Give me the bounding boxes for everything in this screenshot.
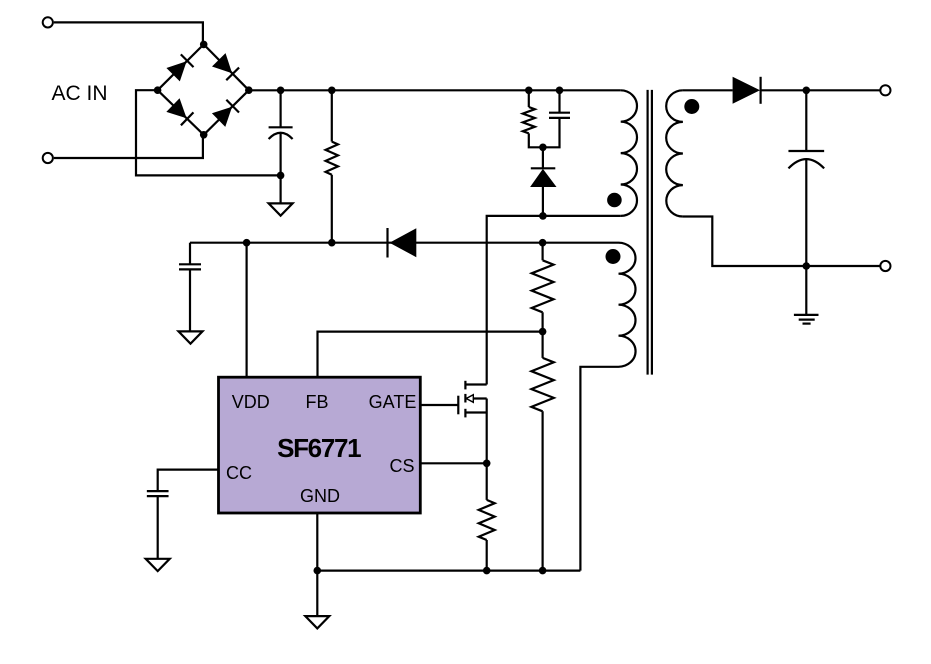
- mosfet Q1 drain wire: [465, 383, 486, 385]
- sense resistor R5 lead top: [486, 463, 488, 500]
- svg-text:GATE: GATE: [369, 392, 417, 412]
- junction rail/R1: [328, 87, 336, 95]
- junction output/C4: [803, 87, 811, 95]
- mosfet source down wire: [486, 399, 488, 464]
- junction C1/ground rail: [277, 172, 285, 180]
- GND pin wire: [316, 512, 318, 616]
- aux return wire: [580, 367, 618, 571]
- junction rail/C3: [556, 87, 564, 95]
- transformer aux winding: [619, 243, 636, 367]
- bridge node left junction: [154, 86, 162, 94]
- CS wire: [420, 462, 487, 464]
- AC input terminal J1 (top): [43, 17, 53, 27]
- snubber C3 bottom wire: [543, 118, 560, 147]
- snubber diode D6 (points up): [530, 168, 556, 187]
- svg-text:SF6771: SF6771: [277, 433, 361, 463]
- junction R5/ground rail: [483, 567, 491, 575]
- bridge edge wire BL: [158, 90, 204, 135]
- svg-text:CS: CS: [389, 456, 414, 476]
- startup resistor R1: [326, 142, 338, 175]
- top AC line-1 wire: [54, 22, 203, 44]
- output cap branch wire: [805, 90, 807, 151]
- bridge diode D1 (left->top): [166, 54, 193, 81]
- junction rail/C1: [277, 87, 285, 95]
- output terminal J4 (minus): [880, 261, 890, 271]
- mosfet Q1 channel segments: [464, 381, 466, 390]
- output terminal J3 (plus): [880, 85, 890, 95]
- startup resistor R1 lead top: [331, 90, 333, 141]
- junction CS: [483, 460, 491, 468]
- snubber resistor R2: [523, 107, 535, 133]
- divider R4 lead top: [541, 332, 543, 358]
- secondary top wire: [683, 89, 733, 91]
- bulk cap branch wire bottom: [280, 133, 282, 204]
- snubber diode D6 wire top: [542, 147, 544, 168]
- primary ground symbol 4 (main): [305, 616, 329, 628]
- junction VDD-line/divider: [539, 239, 547, 247]
- bridge edge wire TR: [204, 44, 249, 90]
- svg-text:FB: FB: [305, 392, 328, 412]
- bridge diode D4 (bottom->right): [212, 99, 239, 126]
- CC cap lower wire: [157, 496, 159, 559]
- mosfet Q1 body arrow: [466, 395, 473, 403]
- junction D6/primary-return: [539, 212, 547, 220]
- junction secondary-return/C4: [803, 262, 811, 270]
- bridge node right junction: [245, 86, 253, 94]
- op-amp U1 SF6771 body: [219, 377, 421, 513]
- output cap lower wire: [805, 160, 807, 267]
- svg-text:CC: CC: [226, 463, 252, 483]
- transformer core: [646, 90, 648, 375]
- secondary earth ground symbol: [794, 314, 819, 316]
- secondary ground wire: [805, 266, 807, 315]
- output diode D7 (points right): [733, 77, 761, 104]
- divider R3 lead bottom: [541, 312, 543, 331]
- junction VDD pin/VDD line: [243, 239, 251, 247]
- mosfet Q1 body wire: [465, 397, 486, 399]
- svg-text:AC IN: AC IN: [52, 82, 108, 105]
- bulk cap branch wire top: [280, 90, 282, 127]
- AC input terminal J2 (bottom): [43, 153, 53, 163]
- primary ground symbol 2: [179, 331, 203, 343]
- CC capacitor C5: [147, 490, 169, 492]
- bridge edge wire BR: [204, 90, 249, 135]
- FB wire: [318, 332, 543, 377]
- primary phase dot: [607, 193, 622, 208]
- snubber diode D6 wire bottom: [542, 187, 544, 216]
- svg-text:GND: GND: [300, 486, 340, 506]
- bottom AC line-2 wire: [54, 135, 203, 158]
- bridge node bottom junction: [200, 131, 208, 139]
- startup resistor R1 lead bottom: [331, 175, 333, 243]
- mosfet Q1 source wire: [465, 411, 486, 413]
- junction R4/ground rail: [539, 567, 547, 575]
- junction R1/VDD line: [328, 239, 336, 247]
- transformer primary winding: [621, 90, 637, 216]
- HV bus rail wire: [249, 89, 621, 91]
- VDD diode D5 (points left): [388, 228, 417, 258]
- junction FB tap: [539, 328, 547, 336]
- CC pin wire: [158, 470, 219, 492]
- VDD filter capacitor C2: [179, 263, 201, 265]
- svg-text:VDD: VDD: [232, 392, 270, 412]
- bridge diode D3 (left->bottom): [166, 98, 193, 125]
- primary return wire to drain: [487, 216, 621, 385]
- divider resistor R4: [531, 358, 553, 411]
- bridge edge wire TL: [158, 44, 204, 90]
- primary ground symbol 3: [146, 559, 170, 571]
- secondary phase dot: [684, 99, 699, 114]
- primary ground symbol 1: [269, 203, 293, 215]
- divider R3 lead top: [541, 243, 543, 261]
- sense resistor R5: [479, 500, 495, 540]
- junction R2/C3: [539, 144, 547, 152]
- junction rail/R2: [525, 87, 533, 95]
- snubber resistor R2 lead: [528, 90, 530, 107]
- output top wire: [761, 89, 881, 91]
- VDD cap lower wire: [189, 269, 191, 331]
- transformer secondary winding: [666, 90, 683, 216]
- mosfet Q1 gate bar: [457, 396, 459, 415]
- bridge diode D2 (top->right): [212, 53, 239, 80]
- wire bridge left to ground rail: [136, 90, 281, 175]
- snubber cap branch wire: [558, 90, 560, 112]
- junction GND rail: [314, 567, 322, 575]
- bridge node top junction: [200, 41, 208, 49]
- divider R4 lead bottom: [541, 411, 543, 570]
- divider resistor R3: [532, 260, 554, 312]
- output capacitor C4: [788, 150, 824, 152]
- secondary return wire: [683, 217, 880, 267]
- bulk capacitor C1: [269, 126, 293, 128]
- VDD pin wire: [246, 243, 248, 377]
- snubber capacitor C3: [549, 112, 570, 114]
- VDD filter cap branch wire: [189, 243, 191, 265]
- VDD line wire: [190, 242, 619, 244]
- snubber R2 bottom wire: [529, 133, 543, 147]
- sense resistor R5 lead bottom: [486, 540, 488, 571]
- primary ground rail wire: [317, 569, 580, 571]
- aux phase dot: [606, 249, 621, 264]
- GATE wire: [420, 404, 458, 406]
